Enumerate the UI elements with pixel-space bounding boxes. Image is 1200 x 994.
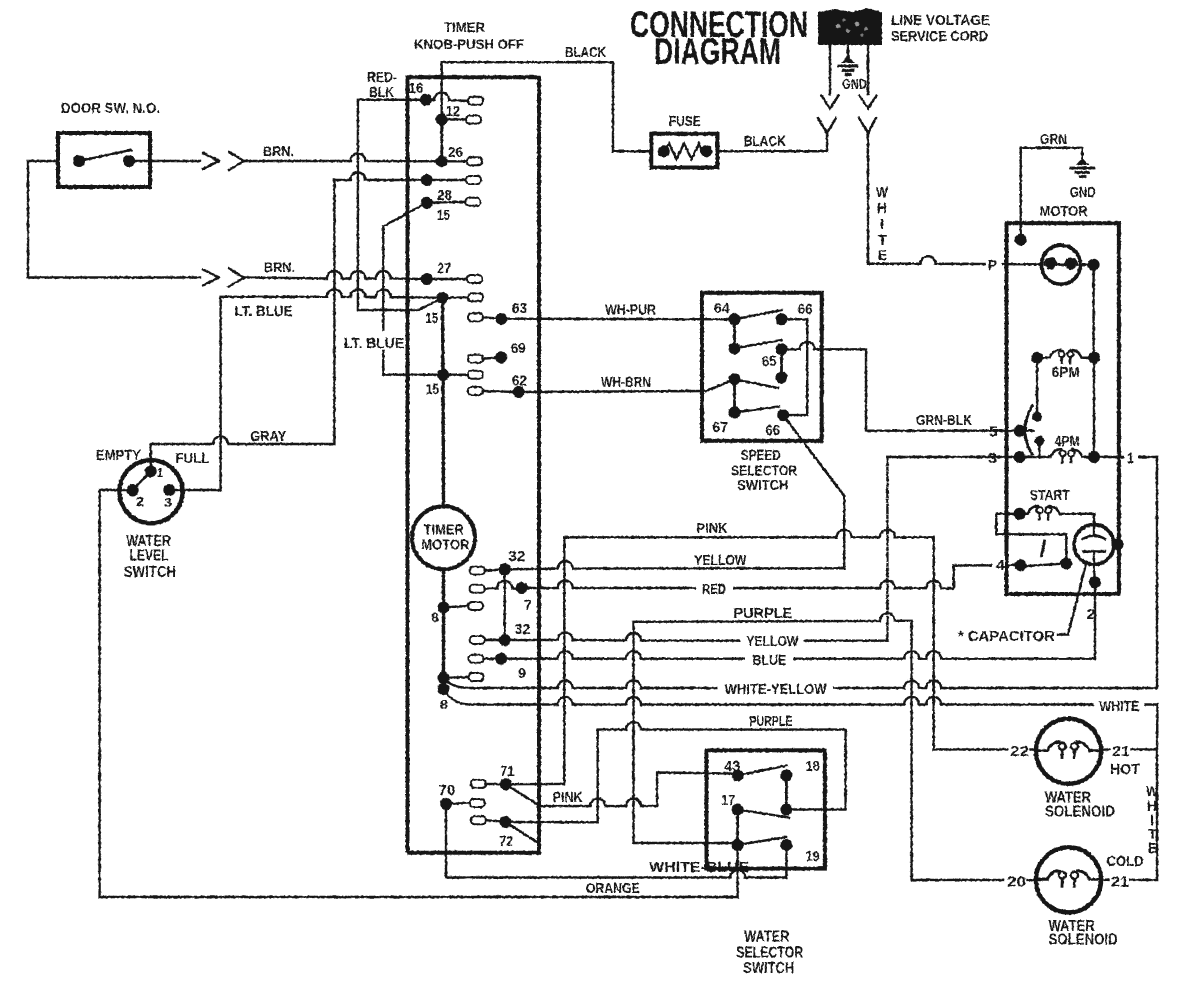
service cord ground stub xyxy=(847,45,849,57)
selector dot 43 xyxy=(732,769,744,781)
water level lever xyxy=(133,471,151,490)
wire right dot down to 6PM coil xyxy=(1092,265,1094,358)
label WATER LEVEL SWITCH xyxy=(124,533,176,581)
selector dot 67 xyxy=(729,407,741,419)
fuse right dot xyxy=(700,145,712,157)
wire 66 U link xyxy=(782,319,808,415)
svg-text:SOLENOID: SOLENOID xyxy=(1045,804,1115,821)
dashed riser motor 3 to yellow xyxy=(886,457,888,641)
link 64 to 64b xyxy=(733,319,736,348)
svg-text:19: 19 xyxy=(806,848,820,865)
selector dot 65a xyxy=(776,343,788,355)
water level contact 1 xyxy=(145,465,157,477)
wire 66b diagonal to yellow riser xyxy=(783,415,844,496)
link 12 to 26 xyxy=(440,120,443,162)
motor ground dot xyxy=(1015,234,1027,246)
wire 65a out with hump xyxy=(782,342,822,350)
svg-text:SERVICE CORD: SERVICE CORD xyxy=(891,28,988,45)
svg-text:SOLENOID: SOLENOID xyxy=(1049,932,1118,949)
terminal 8a and 8b xyxy=(438,672,484,712)
svg-text:LT. BLUE: LT. BLUE xyxy=(344,335,404,352)
svg-text:MOTOR: MOTOR xyxy=(421,537,469,554)
svg-text:RED: RED xyxy=(702,581,726,598)
svg-text:BRN.: BRN. xyxy=(263,143,294,159)
terminal 9 xyxy=(469,653,527,682)
timer box xyxy=(408,77,540,852)
connector arrow top row xyxy=(203,153,219,169)
wire connector to dot right xyxy=(1080,264,1093,266)
wire BRN to timer 26 xyxy=(244,154,442,162)
wire motor 1 xyxy=(1119,456,1157,458)
svg-text:YELLOW: YELLOW xyxy=(694,552,747,569)
lever 43 to 18 xyxy=(738,766,787,776)
wire WHITE-BLUE 70 to 19 xyxy=(446,804,786,878)
terminal 15b xyxy=(426,369,483,398)
svg-text:GND.: GND. xyxy=(842,76,870,93)
wire PINK 71 to selector 43 xyxy=(506,773,738,807)
speed selector arc lever xyxy=(1025,406,1032,454)
svg-text:E: E xyxy=(1148,840,1157,857)
line voltage service cord blob xyxy=(818,8,882,45)
white line receptacle chevron xyxy=(859,118,876,133)
svg-text:BLACK: BLACK xyxy=(565,44,606,61)
label BLUE xyxy=(745,651,793,669)
label WHITE (vertical right) xyxy=(1146,783,1159,857)
svg-text:I: I xyxy=(880,216,884,233)
selector dot 17a xyxy=(732,804,744,816)
svg-text:MOTOR: MOTOR xyxy=(1040,203,1088,220)
water level contact 3 xyxy=(163,484,175,496)
black line receptacle chevron xyxy=(818,118,836,133)
selector dot 64c xyxy=(729,373,741,385)
svg-text:LT. BLUE: LT. BLUE xyxy=(235,303,293,320)
svg-text:65: 65 xyxy=(762,353,777,370)
link 18a to 18b xyxy=(785,775,788,809)
svg-text:E: E xyxy=(878,247,887,264)
hot water solenoid circle xyxy=(1036,719,1101,784)
terminal 12 xyxy=(436,103,481,126)
wire 71 to pink riser xyxy=(506,783,565,786)
terminal 70 xyxy=(438,782,484,810)
service cord right lead arrowhead xyxy=(860,96,877,109)
label P xyxy=(986,256,1002,274)
terminal 26 xyxy=(436,144,482,167)
lever 17b toward 19 xyxy=(738,837,787,845)
svg-text:FUSE: FUSE xyxy=(669,113,701,130)
svg-text:1: 1 xyxy=(157,465,163,480)
svg-text:70: 70 xyxy=(438,782,455,799)
wire solenoid 22 xyxy=(934,748,1036,751)
4PM coil right dot xyxy=(1088,451,1100,463)
wire start coil to capacitor xyxy=(1093,514,1095,525)
wire capacitor to motor 2 dot xyxy=(1093,565,1096,583)
svg-text:71: 71 xyxy=(500,763,514,780)
svg-text:15: 15 xyxy=(426,381,439,398)
label WATER SOLENOID hot xyxy=(1045,789,1115,820)
wire door switch left loop xyxy=(28,161,200,278)
svg-text:YELLOW: YELLOW xyxy=(746,633,799,650)
svg-text:66: 66 xyxy=(765,422,780,439)
motor box xyxy=(1007,223,1119,594)
svg-text:HOT: HOT xyxy=(1110,761,1140,778)
wire 28 to gray riser xyxy=(334,173,426,180)
wire 6PM right to 4PM right xyxy=(1093,358,1095,457)
door switch lever xyxy=(79,150,131,161)
svg-text:72: 72 xyxy=(499,833,513,850)
svg-text:12: 12 xyxy=(446,103,460,120)
fuse left dot xyxy=(658,145,670,157)
label WHITE (vertical) xyxy=(876,184,889,264)
terminal 32b xyxy=(470,621,531,646)
svg-text:START: START xyxy=(1030,487,1070,504)
lever 67 toward 66b xyxy=(735,407,780,413)
tick at terminal 5 xyxy=(1020,430,1034,432)
selector dot 66b xyxy=(777,409,789,421)
lever 64 to 66 xyxy=(735,310,782,319)
wire WH-BRN 62 to speed selector xyxy=(519,391,706,392)
start switch lever xyxy=(1021,563,1067,566)
svg-text:SWITCH: SWITCH xyxy=(743,960,794,977)
wire GRN motor to ground xyxy=(1021,148,1083,240)
motor terminal 3 dot xyxy=(1014,451,1026,463)
label YELLOW (32b row) xyxy=(740,632,804,650)
svg-text:WH-BRN: WH-BRN xyxy=(601,374,651,391)
label CAPACITOR with pointer xyxy=(958,562,1087,645)
svg-text:32: 32 xyxy=(514,621,530,638)
svg-text:SWITCH: SWITCH xyxy=(124,564,176,581)
wire PURPLE 72 to selector 18 xyxy=(506,722,846,822)
wire GRAY contact 1 to timer 28 xyxy=(151,180,335,471)
svg-text:BRN.: BRN. xyxy=(264,259,295,275)
svg-text:18: 18 xyxy=(806,758,820,775)
svg-text:KNOB-PUSH OFF: KNOB-PUSH OFF xyxy=(414,36,524,52)
terminal 27 xyxy=(421,260,482,285)
door switch contact left xyxy=(73,155,85,167)
water level contact 2 xyxy=(127,484,139,496)
label SPEED SELECTOR SWITCH xyxy=(731,447,797,494)
svg-text:H: H xyxy=(877,200,887,217)
svg-text:GND: GND xyxy=(1070,184,1096,201)
wire GRN-BLK speed selector to motor 5 xyxy=(822,349,1014,430)
ground symbol GND xyxy=(839,56,857,75)
svg-text:GRAY: GRAY xyxy=(250,428,286,445)
svg-text:LINE VOLTAGE: LINE VOLTAGE xyxy=(891,12,990,29)
water selector switch box xyxy=(707,750,825,868)
wire 15 diagonal to lt blue riser xyxy=(383,203,426,227)
service cord left lead wire xyxy=(829,45,831,94)
svg-text:PINK: PINK xyxy=(697,520,728,537)
motor terminal 4 dot xyxy=(1015,559,1027,571)
cold water solenoid circle xyxy=(1036,847,1101,912)
svg-text:BLACK: BLACK xyxy=(744,133,786,150)
svg-text:EMPTY: EMPTY xyxy=(96,447,141,464)
connector chevron bottom row xyxy=(229,269,244,287)
timer motor circle xyxy=(412,506,475,569)
svg-text:PURPLE: PURPLE xyxy=(733,605,792,622)
svg-text:PINK: PINK xyxy=(553,789,583,806)
svg-text:5: 5 xyxy=(989,424,998,441)
title CONNECTION DIAGRAM xyxy=(630,4,808,72)
svg-text:WHITE: WHITE xyxy=(1099,698,1139,715)
wire WHITE receptacle to motor P xyxy=(868,133,1041,264)
selector dot 66a xyxy=(776,313,788,325)
capacitor right dot on box edge xyxy=(1111,539,1123,551)
door switch contact right xyxy=(123,155,135,167)
motor connector right dot xyxy=(1088,259,1100,271)
4PM coil xyxy=(1045,433,1095,463)
terminal 69 xyxy=(468,340,526,363)
label WATER SOLENOID cold xyxy=(1049,918,1118,949)
label RED xyxy=(696,580,733,598)
link 32a to 32b xyxy=(504,569,506,640)
svg-text:7: 7 xyxy=(524,597,532,614)
svg-text:63: 63 xyxy=(512,300,527,317)
svg-text:GRN-BLK: GRN-BLK xyxy=(916,412,972,429)
label 4 xyxy=(992,556,1006,574)
label TIMER KNOB-PUSH OFF xyxy=(414,19,524,52)
wire RED-BLK xyxy=(358,100,443,310)
label WHITE-YELLOW xyxy=(718,680,833,698)
svg-text:TIMER: TIMER xyxy=(444,19,485,35)
wire ORANGE contact 2 to selector 17 xyxy=(100,490,738,897)
svg-text:66: 66 xyxy=(798,301,813,318)
svg-text:W: W xyxy=(876,184,889,201)
selector dot 17b xyxy=(732,839,744,851)
svg-text:1: 1 xyxy=(1127,450,1134,467)
terminal 8 upper xyxy=(431,602,483,626)
svg-text:4PM: 4PM xyxy=(1055,433,1080,450)
selector dot 64 xyxy=(729,313,741,325)
svg-text:BLK: BLK xyxy=(369,84,394,101)
svg-text:GRN: GRN xyxy=(1040,131,1067,148)
terminal 62 xyxy=(468,373,527,399)
connector arrow bottom row xyxy=(203,270,219,286)
svg-text:8: 8 xyxy=(431,610,439,625)
terminal 71 xyxy=(471,763,514,790)
svg-text:LEVEL: LEVEL xyxy=(130,548,169,565)
door switch box xyxy=(58,133,150,187)
svg-text:4: 4 xyxy=(996,557,1006,574)
fuse box xyxy=(651,134,717,168)
speed selector switch box xyxy=(702,293,822,441)
svg-text:DOOR SW. N.O.: DOOR SW. N.O. xyxy=(61,100,160,117)
selector dot 18b xyxy=(780,804,792,816)
label RED-BLK xyxy=(367,69,397,101)
terminal 72 xyxy=(471,816,513,850)
svg-text:ORANGE: ORANGE xyxy=(586,880,640,897)
svg-text:3: 3 xyxy=(988,450,997,467)
terminal 15a xyxy=(425,292,483,327)
svg-text:21: 21 xyxy=(1111,874,1129,891)
svg-text:20: 20 xyxy=(1007,874,1026,891)
label WHITE xyxy=(1094,697,1144,715)
lever 17a xyxy=(738,810,789,818)
svg-text:* CAPACITOR: * CAPACITOR xyxy=(958,628,1055,645)
6PM coil xyxy=(1031,350,1100,381)
wire YELLOW 32a to speed selector 66 xyxy=(505,415,845,569)
svg-text:P: P xyxy=(988,257,997,274)
svg-text:21: 21 xyxy=(1112,743,1130,760)
label LINE VOLTAGE SERVICE CORD xyxy=(891,12,990,45)
svg-text:COLD: COLD xyxy=(1107,853,1144,870)
svg-text:2: 2 xyxy=(136,494,144,509)
svg-text:22: 22 xyxy=(1010,743,1029,760)
terminal 7 xyxy=(470,581,532,614)
wire PURPLE 17 riser and row xyxy=(634,613,912,880)
svg-text:BLUE: BLUE xyxy=(752,652,786,669)
svg-text:67: 67 xyxy=(712,419,728,436)
wire BRN to timer 27 xyxy=(244,271,427,279)
wire solenoid 21 cold xyxy=(1101,879,1157,881)
lever wh-brn to 64c xyxy=(706,379,735,391)
svg-text:27: 27 xyxy=(437,260,451,277)
motor terminal 2 dot xyxy=(1089,576,1101,588)
svg-text:3: 3 xyxy=(164,495,172,510)
ground symbol motor GND xyxy=(1071,158,1094,177)
svg-text:WH-PUR: WH-PUR xyxy=(605,302,656,319)
timer inner rail 15a to timer motor xyxy=(443,298,444,507)
svg-text:DIAGRAM: DIAGRAM xyxy=(654,31,781,72)
svg-text:SWITCH: SWITCH xyxy=(737,477,788,494)
capacitor circle xyxy=(1074,525,1114,565)
wire start hook xyxy=(996,514,1066,564)
service cord left lead arrowhead xyxy=(822,96,839,109)
svg-text:WATER: WATER xyxy=(744,929,789,946)
svg-text:6PM: 6PM xyxy=(1052,364,1080,381)
start switch actuator tick xyxy=(1042,541,1045,556)
svg-text:8: 8 xyxy=(440,697,448,712)
terminal 32a xyxy=(470,548,526,575)
svg-text:SELECTOR: SELECTOR xyxy=(736,945,803,962)
wire WHITE 8b to solenoid bus xyxy=(444,689,1158,749)
svg-text:69: 69 xyxy=(511,340,526,357)
svg-text:64: 64 xyxy=(714,300,731,317)
motor terminal 5 dot xyxy=(1014,425,1026,437)
link 17a to 17b xyxy=(736,810,739,846)
wire WH-PUR 63 to speed selector 64 xyxy=(501,318,734,321)
wire LT BLUE contact 3 to timer 15a xyxy=(169,289,442,490)
terminal 16 xyxy=(409,80,484,106)
svg-text:26: 26 xyxy=(448,144,463,161)
svg-text:PURPLE: PURPLE xyxy=(749,713,792,730)
svg-text:16: 16 xyxy=(409,80,424,97)
speed contact upper dot xyxy=(1032,412,1042,422)
lever 64b to 65 xyxy=(735,340,782,348)
selector dot 19 xyxy=(780,839,792,851)
start switch right dot xyxy=(1060,557,1072,569)
svg-text:15: 15 xyxy=(437,207,450,224)
motor connector circle xyxy=(1041,245,1080,284)
svg-text:WHITE-BLUE: WHITE-BLUE xyxy=(649,859,749,876)
link 64c to 67 xyxy=(733,379,736,412)
svg-text:WHITE-YELLOW: WHITE-YELLOW xyxy=(725,681,828,698)
lever 64c toward 65b xyxy=(735,379,779,388)
label WATER SELECTOR SWITCH xyxy=(736,929,803,978)
wire solenoid 21 hot xyxy=(1101,748,1157,751)
selector dot 64b xyxy=(729,342,741,354)
svg-text:15: 15 xyxy=(425,310,438,327)
svg-text:2: 2 xyxy=(1087,606,1096,623)
selector dot 65b xyxy=(776,372,788,384)
terminal 63 xyxy=(468,300,527,325)
wire PINK 71 riser and row xyxy=(564,530,933,784)
wire door switch to arrow xyxy=(129,160,200,162)
selector dot 18a xyxy=(780,769,792,781)
timer inner rail below motor xyxy=(442,569,445,689)
service cord right lead wire xyxy=(867,45,869,94)
link 65a to 65b xyxy=(780,349,783,377)
wire WHITE-YELLOW 8a to motor 1 xyxy=(444,457,1158,688)
wire fuse to black receptacle xyxy=(718,133,828,151)
svg-text:9: 9 xyxy=(518,665,526,682)
wire lt blue riser xyxy=(383,227,443,375)
connector chevron top row xyxy=(229,152,244,170)
svg-text:SPEED: SPEED xyxy=(741,447,781,464)
wire RED 7 to motor 4 xyxy=(522,565,1014,588)
svg-text:FULL: FULL xyxy=(175,450,209,467)
wire YELLOW 32b to dashed riser xyxy=(505,633,888,641)
wire BLUE 9 to motor 2 xyxy=(501,582,1095,658)
label 1 xyxy=(1124,449,1138,467)
wire 6PM left leg xyxy=(1036,358,1038,417)
terminal 28 xyxy=(421,174,481,204)
wire BLACK timer to fuse xyxy=(442,62,652,151)
svg-text:32: 32 xyxy=(508,548,525,565)
wire 4PM contact leg xyxy=(1038,441,1040,457)
wire BLACK drop to terminal 12 xyxy=(441,62,443,119)
fuse element zigzag xyxy=(664,144,707,160)
solenoid bus wire xyxy=(1156,749,1158,880)
wire solenoid 20 xyxy=(912,879,1036,881)
terminal 15 first xyxy=(421,197,481,224)
wire motor 3 row with 4PM coil xyxy=(887,456,1119,458)
start coil xyxy=(1014,506,1094,520)
speed contact lower dot xyxy=(1035,436,1045,446)
wire 72 diagonal to timer corner xyxy=(506,822,539,844)
water level switch circle xyxy=(120,460,183,523)
